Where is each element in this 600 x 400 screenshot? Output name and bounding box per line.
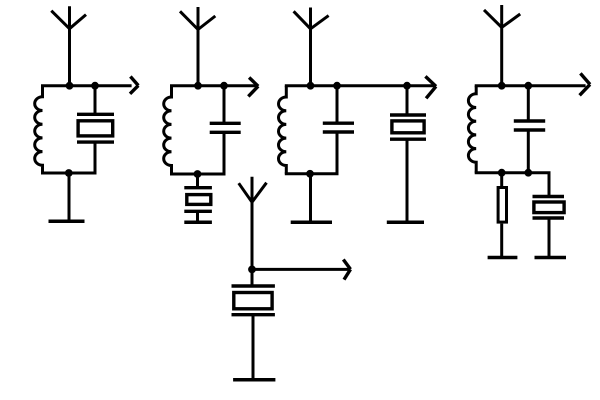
ground G7 [233,378,275,382]
wire: circuit 1 ground stem [68,173,71,221]
crystal X4 [533,197,565,258]
node: circuit 5 junction [248,266,256,274]
node: circuit 1 crystal branch junction [91,82,99,90]
arrow: circuit 1 output [130,77,138,94]
ground G2 [184,220,212,224]
antenna AN1 [51,6,86,85]
node: circuit 4 resistor junction [498,169,506,177]
crystal X2 [184,174,212,222]
node: circuit 4 crystal junction [524,169,532,177]
antenna AN3 [294,8,329,86]
node: circuit 1 bottom junction [65,169,73,177]
inductor L4 [468,86,476,173]
wire: circuit 4 top rail [475,84,586,87]
ground G1 [49,220,85,224]
node: circuit 4 antenna junction [498,82,506,90]
node: circuit 3 antenna junction [307,82,315,90]
wire: circuit 2 bottom rail [170,173,226,176]
ground G4 [387,220,424,224]
node: circuit 2 bottom junction [194,170,202,178]
node: circuit 3 capacitor junction [333,82,341,90]
node: circuit 3 crystal branch junction [403,82,411,90]
inductor L2 [164,86,172,174]
arrow: circuit 5 output [343,260,350,280]
capacitor C3 [323,86,354,174]
arrow: circuit 3 output [425,76,436,98]
wire: circuit 5 output line [252,268,349,271]
inductor L1 [35,86,43,173]
antenna AN2 [180,7,215,86]
arrow: circuit 2 output [248,78,258,97]
node: circuit 2 capacitor junction [220,82,228,90]
wire: circuit 1 top rail [41,84,132,87]
crystal X1 [77,86,114,173]
crystal X3 [390,86,426,223]
ground G6 [535,256,567,260]
capacitor C2 [210,86,241,174]
node: circuit 2 antenna junction [194,82,202,90]
wire: circuit 2 top rail [170,84,256,87]
wire: circuit 3 bottom rail [285,172,339,175]
ground G5 [488,256,518,260]
node: circuit 3 bottom junction [306,170,314,178]
antenna AN5 [239,177,267,270]
wire: circuit 3 ground stem [309,174,312,222]
node: circuit 4 capacitor junction [524,82,532,90]
resistor R1 [498,173,506,258]
node: circuit 1 antenna junction [66,82,74,90]
capacitor C4 [514,86,545,173]
antenna AN4 [484,5,520,86]
arrow: circuit 4 output [580,73,590,95]
crystal X5 [232,269,275,379]
wire: circuit 3 top rail [285,84,436,87]
ground G3 [291,220,332,224]
wire: circuit 1 bottom rail [41,172,97,175]
inductor L3 [278,86,286,174]
wire: circuit 4 bottom rail [475,173,549,197]
